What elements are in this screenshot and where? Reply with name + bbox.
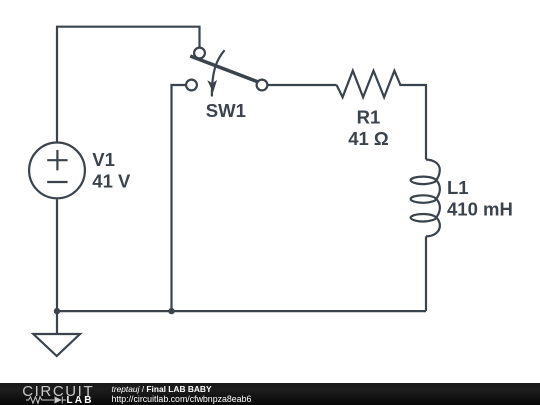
svg-text:LAB: LAB <box>67 395 94 405</box>
svg-text:V1: V1 <box>92 149 115 170</box>
svg-text:L1: L1 <box>447 177 469 198</box>
svg-text:R1: R1 <box>357 107 381 128</box>
svg-text:41 Ω: 41 Ω <box>348 128 389 149</box>
svg-text:SW1: SW1 <box>206 100 246 121</box>
svg-text:41 V: 41 V <box>92 171 131 192</box>
svg-text:410 mH: 410 mH <box>447 199 513 220</box>
